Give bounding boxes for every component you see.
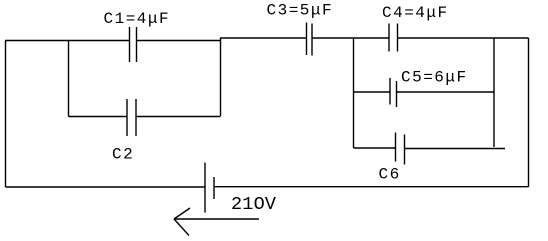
- svg-text:21OV: 21OV: [231, 194, 276, 215]
- svg-text:C6: C6: [379, 166, 401, 184]
- svg-text:C3=5μF: C3=5μF: [267, 2, 334, 20]
- svg-text:C1=4μF: C1=4μF: [104, 10, 171, 28]
- svg-text:C4=4μF: C4=4μF: [382, 4, 449, 22]
- svg-text:C5=6μF: C5=6μF: [401, 69, 468, 87]
- svg-text:C2: C2: [112, 146, 134, 164]
